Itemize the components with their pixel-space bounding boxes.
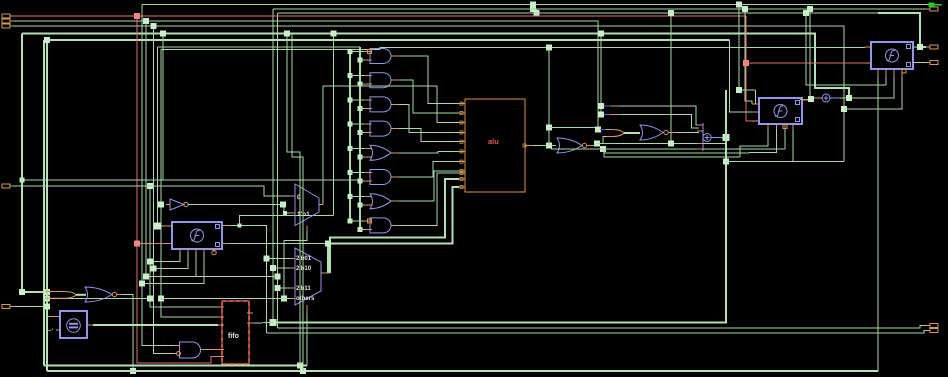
wire red bus y16 from port IN1 — [13, 15, 746, 17]
wire x350 to G3 in1 — [350, 99, 364, 101]
wire bus y49 B — [161, 47, 865, 49]
junction x671 y143 — [668, 141, 674, 147]
wire G5 output to alu pin — [399, 151, 459, 152]
fifo left pins — [218, 307, 224, 357]
bus merge M2 — [606, 130, 624, 137]
wire gate input vertical x350 — [349, 52, 351, 221]
pins of G4 — [364, 124, 399, 133]
reg3 left pins — [163, 226, 172, 244]
probe marker — [929, 3, 943, 8]
MX1 in pins — [290, 196, 295, 213]
alu label — [488, 137, 499, 146]
MX2 label 2'b01 — [296, 256, 312, 262]
input port IN5 — [2, 305, 13, 309]
junction y33 x333 — [331, 31, 337, 37]
junction x601 y106 — [598, 103, 604, 109]
NOR gate U2 — [557, 138, 582, 153]
junction x533 y4 — [530, 2, 536, 8]
wire x745 from bus — [745, 9, 752, 104]
wire x604 cluster — [603, 149, 605, 157]
wire x47 down — [46, 40, 48, 371]
mux MX2 — [295, 248, 321, 305]
register reg1 — [759, 98, 802, 124]
svg-text:2'b10: 2'b10 — [296, 266, 312, 272]
wire y180 line — [22, 179, 360, 181]
wire x360 to G3 in2 — [360, 107, 364, 109]
wire tap x533 — [532, 5, 534, 10]
wire y333 line to port — [267, 331, 927, 334]
pins of G5 — [364, 148, 399, 157]
wire x350 to G2 in1 — [350, 75, 364, 77]
AND gate G8 — [370, 218, 391, 233]
junction reg3 input — [154, 223, 161, 230]
pins of G1 — [364, 50, 399, 61]
wire x153 vertical — [154, 26, 175, 354]
buffer B1 — [166, 199, 184, 210]
wire bus y26 from port IN3 — [13, 26, 844, 162]
wire x878 down to y371 — [47, 77, 878, 371]
AND gate G2 — [370, 73, 391, 88]
U4 output bubble — [112, 292, 116, 296]
output port OUT5 — [926, 329, 938, 333]
merge M1 out — [76, 294, 86, 296]
blue segment y114 — [604, 114, 620, 116]
wire G7 output to alu pin — [399, 171, 459, 201]
comparator tilde label — [48, 329, 54, 335]
wire mux1 select — [284, 232, 307, 299]
fifo F1 — [222, 301, 249, 364]
output port OUT1 — [926, 7, 938, 11]
wire x22 vertical — [22, 34, 45, 293]
AND gate U6 — [180, 342, 201, 358]
svg-text:alu: alu — [488, 137, 499, 146]
X1 output — [711, 137, 724, 139]
wire reg1 fb3 — [784, 129, 786, 149]
wire x806 from y13 — [806, 13, 886, 85]
svg-text:fifo: fifo — [228, 333, 239, 340]
junction y13 x806 — [803, 10, 809, 16]
junction x150 y261 — [147, 259, 153, 265]
wire y106 to xor1 in1 — [620, 106, 699, 125]
U4 out stub — [117, 294, 122, 296]
wire bottom line y371 right part — [47, 370, 878, 372]
junction y243 x328 — [325, 241, 331, 247]
xor1 input bus — [697, 123, 703, 151]
wire red to reg3 — [137, 243, 163, 245]
wire from IN4 to mux1 in0 — [13, 186, 295, 196]
junction buffer line — [280, 202, 286, 208]
wire G8 output to alu pin — [399, 173, 459, 225]
wire G2 output to alu pin — [399, 80, 459, 113]
wire reg2 out1 — [913, 46, 926, 48]
wire x350 to G7 in1 — [350, 196, 364, 198]
junction x153 y268 — [151, 266, 157, 272]
junction x22 y180 — [20, 178, 25, 183]
junction x350 G8 in1 — [348, 218, 353, 223]
U2 output bubble — [582, 143, 586, 147]
alu box U1 — [465, 99, 525, 192]
junction x277 y277 — [275, 274, 281, 280]
red junction x137 y243 — [134, 241, 140, 247]
junction x601 y114 — [598, 112, 604, 118]
wire bus y40 — [44, 39, 730, 41]
wire x333 up to bus — [333, 34, 335, 216]
wire mux1 out up to alu — [323, 86, 459, 205]
wire buffer out to mux1 — [188, 205, 295, 214]
wire alu out — [532, 145, 556, 147]
reg1 left pins — [752, 104, 759, 121]
wire reg2 out2 — [913, 62, 926, 64]
reg1 right stub — [802, 99, 808, 101]
wire x360 to G6 in2 — [360, 180, 364, 182]
U2 output stub — [587, 145, 597, 147]
wire x360 to G8 in2 — [360, 228, 364, 230]
wire U3 out to xor1 — [676, 132, 699, 134]
junction x726 y161 — [723, 159, 729, 165]
junction y9 x745 — [742, 6, 748, 12]
wire feedback y153 to reg1 pin — [604, 152, 749, 155]
input port IN1 — [2, 14, 13, 18]
MX2 in pins — [290, 259, 295, 299]
junction U2 out — [594, 141, 600, 147]
pins of G8 — [364, 219, 399, 230]
wire tap x536 — [536, 9, 538, 13]
pins of G3 — [364, 100, 399, 109]
wire x157 vertical — [158, 47, 164, 226]
junction x161 y299 — [158, 296, 164, 302]
junction x533 y9 — [530, 6, 536, 12]
wire G1 output to alu pin — [399, 56, 459, 104]
wire bus y47 A — [158, 46, 361, 48]
junction alu out — [546, 143, 552, 149]
wire x603 cluster — [603, 137, 612, 144]
AND gate G1 — [370, 49, 391, 64]
red junction x137 y16 — [134, 13, 140, 19]
wire x287 from bus — [287, 34, 300, 366]
wire red to reg2 — [746, 62, 865, 64]
junction fifo out big — [270, 319, 277, 326]
buffer out pin — [184, 202, 188, 206]
svg-text:others: others — [296, 296, 315, 302]
wire x277 long vertical — [277, 13, 279, 328]
AND gate G3 — [370, 97, 391, 112]
junction x360 G4 in2 — [358, 130, 363, 135]
comparator out pin — [87, 324, 93, 326]
wire G6 output to alu pin — [399, 162, 459, 177]
wire x350 to G5 in1 — [350, 147, 364, 149]
register reg3 — [172, 222, 222, 249]
reg2 pin marker — [902, 69, 906, 73]
xor reduce X2 — [822, 94, 830, 102]
junction x739 y90 — [736, 87, 742, 93]
junction x47 y306 — [44, 304, 50, 310]
wire x146 vertical — [145, 21, 147, 277]
pins of G2 — [364, 76, 399, 85]
wire x292 lower — [292, 34, 303, 372]
MX1 out pin — [319, 204, 323, 206]
junction x350 G3 in1 — [348, 97, 353, 102]
junction x360 G3 in2 — [358, 106, 363, 111]
wire G4 output to alu pin — [399, 129, 459, 142]
wire bus y33 — [22, 34, 849, 99]
junction x163 y33 — [160, 31, 166, 37]
junction mux2 in2 — [270, 265, 276, 271]
AND gate G4 — [370, 121, 391, 136]
output port OUT3 — [926, 61, 938, 65]
NOR gate U4 — [85, 287, 112, 302]
red junction y63 — [743, 60, 749, 66]
svg-text:2'b11: 2'b11 — [296, 286, 311, 292]
reg2 bottom pins — [878, 69, 902, 77]
junction xor2 input — [808, 96, 814, 102]
junction y40 x47 — [44, 37, 50, 43]
wire x739 from bus — [739, 5, 756, 91]
wire reg1 fb1 — [740, 129, 768, 157]
wire y243 to alu pin10 — [327, 244, 329, 274]
xor2 input stub — [800, 98, 822, 100]
junction x350 G1 in1 — [348, 49, 353, 54]
reg1 pin marker — [783, 125, 787, 129]
fifo label — [228, 333, 239, 340]
MX2 label others — [296, 296, 315, 302]
wire x350 to G1 in1 — [350, 51, 364, 53]
wire y243 line thick — [328, 187, 459, 244]
junction x350 G7 in1 — [348, 194, 353, 199]
junction y4 x739 — [736, 2, 742, 8]
MX1 label 0 — [297, 194, 301, 201]
wire x350 to G6 in1 — [350, 172, 364, 174]
junction reg2 out1 — [917, 44, 923, 50]
junction x360 G7 in2 — [358, 203, 363, 208]
junction x350 G6 in1 — [348, 170, 353, 175]
wire x810 from bus y9 — [809, 9, 811, 99]
wire x150 vertical — [150, 186, 218, 307]
junction x360 G2 in2 — [358, 82, 363, 87]
wire G3 output to alu pin — [399, 104, 459, 132]
wire reg3 fb3 right — [196, 276, 278, 278]
junction y299 x284 — [281, 296, 287, 302]
junction x360 G5 in2 — [358, 154, 363, 159]
junction x360 G6 in2 — [358, 179, 363, 184]
wire y127 to merge — [549, 127, 596, 129]
MX2 select pin — [306, 305, 308, 313]
junction x146 y21 — [143, 18, 149, 24]
U3 output bubble — [664, 130, 668, 134]
wire feedback y157 to reg1 pin — [604, 156, 740, 158]
junction x300 y365 — [297, 363, 303, 369]
MX2 label 2'b11 — [296, 286, 311, 292]
wire mux2 in1 wire — [267, 258, 291, 260]
wire bus3 y13 to right port — [278, 12, 879, 14]
wire reg1 fb2 — [749, 129, 777, 153]
wire feedback y149 to reg1 pin — [551, 148, 785, 150]
junction y9 x810 — [807, 6, 813, 12]
junction y47 x549 — [546, 44, 552, 50]
NOR gate U3 — [640, 125, 663, 140]
wire x601 vertical — [600, 34, 602, 115]
junction x350 G5 in1 — [348, 146, 353, 151]
junction x549 y127 — [546, 125, 552, 131]
junction x360 G8 in2 — [358, 227, 363, 232]
wire reg3 fb1 — [150, 253, 180, 262]
wire red branch down — [746, 16, 752, 121]
MX1 label 1'b1 — [297, 211, 310, 218]
junction X2 out — [846, 95, 852, 101]
reg2 left pins — [865, 47, 871, 63]
U3 output stub — [668, 132, 676, 134]
wire x360 to G5 in2 — [360, 156, 364, 158]
junction X1 out big — [723, 134, 730, 141]
junction x536 y13 — [534, 10, 540, 16]
reg3 pin5 stub — [212, 249, 216, 255]
junction y33 x287 — [284, 31, 290, 37]
comparator pin — [48, 316, 60, 318]
wire x360 to G4 in2 — [360, 132, 364, 134]
wire bus y21 from port IN2 — [13, 21, 598, 130]
wire y109 to reg2 pin4 — [844, 77, 902, 109]
junction mux1 in2 — [283, 211, 287, 215]
U6 pins — [174, 346, 218, 356]
merge M2 out — [624, 132, 640, 134]
wire x350 to G8 in1 — [350, 220, 364, 222]
comparator U5 — [56, 311, 87, 338]
wire bus1 y4.5 — [142, 4, 929, 6]
wire U4 out down to y371 — [122, 295, 133, 372]
junction buffer input — [158, 202, 164, 208]
wire fifo out to junction — [253, 322, 273, 325]
junction x844 y109 — [841, 106, 847, 112]
wire reg1 fb4 — [792, 129, 794, 162]
junction y13 x671 — [668, 10, 674, 16]
wire x273 long vertical — [272, 9, 274, 323]
wire x350 to G4 in1 — [350, 123, 364, 125]
wire x755 down to reg1 — [756, 90, 760, 104]
svg-text:~′: ~′ — [48, 329, 54, 335]
reg3 right pins — [222, 226, 230, 244]
wire x549 from bus y47 — [548, 47, 550, 145]
junction x47 y299 — [44, 296, 50, 302]
junction x22 y292 — [19, 289, 25, 295]
input port IN4 — [2, 184, 13, 188]
pins of G6 — [364, 173, 399, 182]
wire reg3 out1 right — [230, 226, 267, 333]
junction x150 y298 — [147, 295, 153, 301]
alu pins — [459, 102, 532, 188]
wire branch up to mux1 corner line — [240, 216, 334, 226]
X2 output — [830, 97, 840, 99]
wire y328 line to port — [278, 326, 927, 329]
junction mux2 in1 — [264, 256, 270, 262]
wire feedback y143 line — [597, 143, 726, 145]
wire bottom line y365 — [44, 365, 307, 367]
junction y129 x598 — [595, 127, 601, 133]
pins of G7 — [364, 197, 399, 206]
wire reg3 fb2 — [154, 253, 189, 269]
wire reg3 fb3 — [146, 253, 196, 277]
blue segment y129 — [600, 129, 606, 131]
AND gate G6 — [370, 170, 391, 185]
wire red vertical x137 — [136, 16, 138, 244]
wire gate input vertical x360 — [359, 47, 361, 229]
junction y149 x603 — [600, 146, 606, 152]
wire U2 out to feedback — [596, 144, 598, 146]
wire y161 feedback — [726, 161, 844, 163]
junction x47 y292 — [44, 289, 50, 295]
junction reg3 out1 branch — [238, 224, 242, 228]
MX1 select pin — [306, 226, 308, 233]
OR gate G7 — [370, 194, 391, 209]
wire x142 vertical — [142, 5, 174, 346]
wire x671 from bus y13 — [670, 13, 672, 144]
input port IN3 — [2, 24, 13, 28]
wire x161 vertical — [161, 49, 218, 317]
input port IN2 — [2, 19, 13, 23]
junction y371 x133 — [130, 368, 136, 374]
wire x360 to G2 in2 — [360, 83, 364, 85]
wire X2 out — [840, 77, 894, 98]
junction x360 G1 in2 — [358, 58, 363, 63]
junction mux2 in3 — [275, 285, 281, 291]
fifo right pins — [247, 313, 253, 323]
svg-text:2'b01: 2'b01 — [296, 256, 312, 262]
blue segment y106 — [604, 105, 620, 107]
wire IN5 to comparator — [13, 306, 47, 308]
wire y13 tail thick — [878, 13, 926, 47]
output port OUT2 — [926, 45, 938, 49]
wire y243 line from reg3 out2 — [230, 243, 328, 245]
register reg2 — [871, 42, 913, 69]
junction y33 x601 — [598, 31, 604, 37]
wire big vertical x726 — [273, 90, 726, 323]
wire y299 line — [161, 298, 290, 300]
xor reduce X1 — [703, 134, 711, 142]
mux MX1 — [295, 184, 319, 226]
reg3 bottom pins — [180, 249, 204, 253]
wire mux2 in3 wire — [278, 287, 291, 289]
wire red lower vertical — [137, 244, 218, 363]
junction x350 G2 in1 — [348, 73, 353, 78]
output port OUT4 — [926, 324, 938, 328]
wire x163 vertical — [162, 34, 164, 181]
wire x360 to G7 in2 — [360, 204, 364, 206]
junction x153 y26 — [151, 23, 157, 29]
MX2 out pin — [321, 272, 330, 274]
wire x360 to G1 in2 — [360, 59, 364, 61]
junction x303 y371 — [300, 368, 306, 374]
junction y186 x150 — [147, 183, 153, 189]
reg1 bottom pins — [768, 124, 793, 129]
OR gate G5 — [370, 145, 391, 160]
junction x142 y283 — [139, 281, 145, 287]
wire mux2 select down — [306, 313, 308, 366]
wire x44 down to y365 — [43, 40, 45, 366]
wire y298 segment — [47, 297, 150, 299]
junction x350 G4 in1 — [348, 122, 353, 127]
junction x146 y276 — [143, 274, 149, 280]
svg-text:1'b1: 1'b1 — [297, 211, 310, 218]
bus merge M1 — [45, 292, 76, 299]
MX2 label 2'b10 — [296, 266, 312, 272]
wire x886 from y85 — [885, 69, 887, 85]
wire comparator out to fifo — [93, 324, 218, 326]
wire x729 to reg1 in2 — [730, 40, 753, 112]
wire mux2 out to alu pin9 — [330, 179, 459, 273]
wire bus2 y9.5 — [273, 8, 929, 10]
wire y114 to xor1 in2 — [620, 115, 699, 129]
wire mux2 in2 wire — [273, 267, 290, 269]
wire reg3 fb4 — [142, 253, 204, 284]
